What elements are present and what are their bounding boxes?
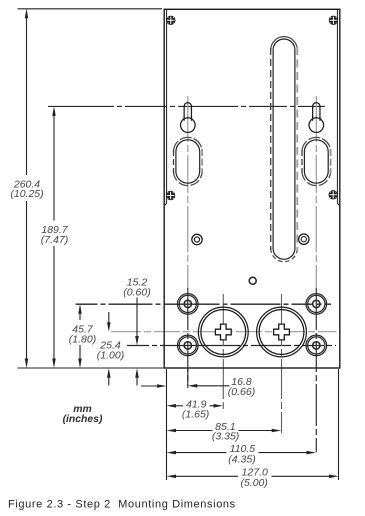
- svg-text:(10.25): (10.25): [10, 188, 43, 200]
- svg-text:Figure 2.3 - Step 2 Mounting: Figure 2.3 - Step 2 Mounting Dimensions: [8, 499, 236, 511]
- svg-text:(5.00): (5.00): [240, 477, 267, 489]
- svg-text:(1.80): (1.80): [69, 333, 96, 345]
- svg-text:(4.35): (4.35): [228, 454, 255, 466]
- svg-text:(7.47): (7.47): [41, 234, 68, 246]
- svg-text:(0.66): (0.66): [228, 386, 255, 398]
- svg-text:(1.00): (1.00): [97, 349, 124, 361]
- svg-text:(inches): (inches): [63, 414, 103, 425]
- svg-text:(0.60): (0.60): [123, 286, 150, 298]
- svg-text:(1.65): (1.65): [182, 409, 209, 421]
- svg-text:(3.35): (3.35): [212, 431, 239, 443]
